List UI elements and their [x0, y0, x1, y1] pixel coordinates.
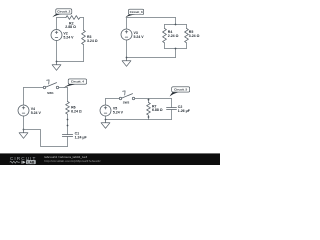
ground	[52, 62, 61, 71]
wire V4 top riser	[23, 88, 25, 106]
wire R5 top lead	[186, 25, 188, 29]
capacitor C1	[62, 135, 72, 137]
wire bottom drop	[175, 49, 177, 58]
resistor R2	[66, 16, 80, 20]
svg-text:Circuit_4: Circuit_4	[71, 80, 84, 84]
wire below R6	[67, 114, 69, 134]
svg-text:5.24 V: 5.24 V	[134, 35, 145, 39]
wire V5 bottom riser	[105, 116, 107, 120]
switch SW1	[43, 86, 45, 88]
junction dot segment joint 1	[67, 119, 69, 121]
callout box Circuit_5	[170, 92, 179, 96]
callout box Circuit_2	[52, 14, 62, 17]
wire R4 bottom lead	[164, 43, 166, 49]
ground	[19, 130, 28, 139]
svg-text:1.24 μF: 1.24 μF	[75, 136, 88, 140]
voltage source V3	[121, 29, 132, 40]
resistor R4	[163, 28, 167, 42]
svg-text:2.88 Ω: 2.88 Ω	[65, 25, 76, 29]
wire V3 bottom riser	[126, 40, 128, 58]
wire top to switch	[24, 87, 44, 89]
junction dot ground node	[23, 129, 25, 131]
svg-text:Circuit_2: Circuit_2	[57, 10, 70, 14]
voltage source V4	[18, 105, 29, 116]
junction dot ground node	[56, 61, 58, 63]
callout box Circuit_3	[125, 14, 135, 17]
wire rect top edge	[165, 24, 187, 26]
wire top right segment	[80, 17, 84, 19]
ground	[101, 120, 110, 129]
junction dot feed top	[175, 24, 177, 26]
svg-text:LAB: LAB	[27, 160, 35, 164]
svg-text:3.24 Ω: 3.24 Ω	[87, 39, 98, 43]
junction dot R7 top	[148, 99, 150, 101]
voltage source V5	[100, 105, 111, 116]
switch SW2	[119, 97, 121, 99]
wire below C1	[67, 137, 69, 147]
voltage source V2	[51, 30, 62, 41]
wire bottom	[57, 61, 84, 63]
junction dot R7 bottom	[148, 116, 150, 118]
wire R7 top lead	[148, 99, 150, 103]
wire V2 top riser	[56, 18, 58, 30]
resistor R6	[66, 102, 70, 115]
wire switch to corner	[59, 87, 68, 89]
resistor R5	[185, 28, 189, 42]
ground	[122, 58, 131, 67]
svg-text:5.24 V: 5.24 V	[63, 35, 74, 39]
logo resistor zigzag	[10, 161, 20, 163]
wire feed drop	[175, 18, 177, 25]
wire bottom route	[24, 130, 68, 147]
capacitor C2	[167, 108, 177, 110]
logo LAB box	[26, 160, 36, 164]
wire R7 bottom lead	[148, 115, 150, 119]
wire bottom horizontal	[127, 57, 176, 59]
svg-text:SW2: SW2	[123, 101, 130, 105]
logo mosfet arrow	[22, 161, 25, 164]
junction dot ground node	[126, 57, 128, 59]
wire top left segment	[57, 17, 67, 19]
svg-text:5.24 V: 5.24 V	[31, 111, 42, 115]
wire right branch lower	[83, 45, 85, 62]
svg-text:5.24 V: 5.24 V	[113, 111, 124, 115]
wire V2 bottom riser	[56, 41, 58, 62]
svg-text:Circuit_5: Circuit_5	[174, 88, 187, 92]
junction dot feed bottom	[175, 48, 177, 50]
resistor R3	[82, 30, 86, 44]
wire V5 top riser	[105, 99, 107, 106]
wire R4 top lead	[164, 25, 166, 29]
wire R5 bottom lead	[186, 43, 188, 49]
svg-text:3.24 Ω: 3.24 Ω	[189, 34, 200, 38]
svg-text:SW1: SW1	[47, 91, 54, 95]
wire V3 top riser	[126, 18, 128, 30]
svg-text:http://circuitlab.com/c/p33pvw: http://circuitlab.com/c/p33pvw247e3ew4z	[44, 159, 101, 163]
svg-text:Circuit_3: Circuit_3	[130, 10, 143, 14]
svg-text:6.88 Ω: 6.88 Ω	[152, 108, 163, 112]
wire C2 upper lead	[171, 99, 173, 108]
resistor R7	[147, 103, 151, 116]
wire right branch upper	[83, 18, 85, 31]
junction dot ground node	[105, 119, 107, 121]
wire rect bottom edge	[165, 48, 187, 50]
wire V4 bottom riser	[23, 116, 25, 129]
svg-text:1.26 μF: 1.26 μF	[178, 109, 191, 113]
wire C2 lower lead	[171, 110, 173, 120]
wire bottom	[106, 119, 172, 121]
wire right branch upper	[67, 88, 69, 102]
wire top horizontal	[127, 17, 176, 19]
junction dot segment joint 2	[67, 125, 69, 127]
svg-text:2.24 Ω: 2.24 Ω	[168, 34, 179, 38]
svg-text:6.24 Ω: 6.24 Ω	[71, 109, 82, 113]
wire top to switch	[106, 98, 120, 100]
wire switch to corner	[135, 98, 172, 100]
callout box Circuit_4	[63, 84, 75, 88]
watermark bar	[0, 152, 220, 155]
